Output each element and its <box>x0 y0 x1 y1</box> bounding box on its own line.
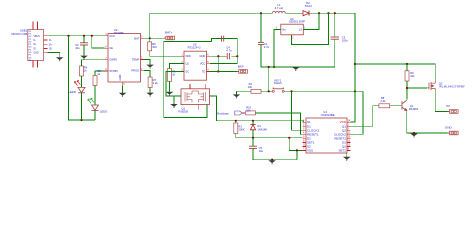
wire R4 to LEDR <box>81 76 83 87</box>
svg-text:1N4148: 1N4148 <box>257 127 267 131</box>
svg-text:SS14: SS14 <box>305 4 312 8</box>
svg-text:100: 100 <box>152 45 157 49</box>
wire top rail left <box>150 12 273 14</box>
U5 pin CS <box>181 61 184 64</box>
svg-text:VSS: VSS <box>307 149 313 153</box>
svg-text:TEMP: TEMP <box>132 58 140 62</box>
svg-text:GND: GND <box>445 126 453 130</box>
junction LEDR cathode rail <box>80 119 82 121</box>
junction D1 top <box>252 120 254 122</box>
svg-text:ID: ID <box>49 47 52 51</box>
U3 pin names <box>282 28 302 32</box>
U2 pin STDBY <box>105 68 109 71</box>
diode D1 1N4148 <box>250 124 255 129</box>
LED LEDR red <box>74 80 85 92</box>
U4 right pin SET2 <box>347 148 351 151</box>
junction 5V spur <box>354 63 356 65</box>
svg-text:IRLML6401TRPBF: IRLML6401TRPBF <box>439 85 465 89</box>
connector USB1 MICRO USB body <box>28 30 44 61</box>
wire R10 to reset <box>255 113 302 134</box>
junction TD row <box>217 70 219 72</box>
wire gate <box>407 87 427 89</box>
wire CHRG to R4 <box>82 60 105 66</box>
junction 5V gndloop <box>327 12 329 14</box>
junction gnd rail arrow <box>413 132 415 134</box>
junction R3 top <box>235 120 237 122</box>
wire R6 top <box>149 38 151 42</box>
transistor Q1 FS8205 body <box>181 89 210 105</box>
transistor Q2 IRLML6401 P-MOSFET <box>427 81 435 90</box>
U4 right pin D2 <box>347 140 351 143</box>
junction vss <box>296 149 298 151</box>
svg-text:4.7 uH: 4.7 uH <box>275 6 283 10</box>
U4 right pin CLOCK2 <box>347 132 351 135</box>
wire Vin drop <box>274 30 281 68</box>
U4 right pin Q2 <box>347 128 351 131</box>
U2 pin GND <box>123 82 126 86</box>
svg-text:4.7u: 4.7u <box>226 48 232 52</box>
resistor R7 1.2k <box>148 77 158 88</box>
U2 pin CE <box>105 45 109 48</box>
wire L1 to D2 <box>285 12 303 14</box>
svg-text:CE8301 50PF: CE8301 50PF <box>289 20 306 24</box>
U4 left pin D1 <box>303 124 306 127</box>
wire LEDG cathode <box>94 110 96 120</box>
wire VBUS rail <box>48 35 105 37</box>
FS8205 pin top1 <box>189 84 191 89</box>
U2 pin VCC <box>105 33 109 36</box>
wire FS8205 right pin <box>210 96 217 121</box>
wire R6 to VDD pin <box>150 51 181 56</box>
junction C5 top <box>252 137 254 139</box>
svg-text:5: 5 <box>123 83 125 86</box>
connector BAT+ <box>164 30 175 39</box>
wire top rail 5V <box>309 12 355 14</box>
svg-text:CE: CE <box>109 46 113 50</box>
resistor R4 1k <box>80 66 88 77</box>
wire key drop to ground rail <box>268 67 270 91</box>
U3 pin GND <box>291 35 294 40</box>
wire cap row <box>236 137 303 139</box>
wire U2 GND <box>122 86 124 93</box>
wire GND row <box>210 55 226 57</box>
svg-text:BAT+: BAT+ <box>165 30 173 34</box>
svg-text:10k: 10k <box>248 85 253 89</box>
LED LEDG green <box>88 98 99 110</box>
U4 right pin Q2 <box>347 144 351 147</box>
junction key left <box>268 90 270 92</box>
resistor R1 1k <box>168 69 177 82</box>
USB1 pin names and numbers <box>29 31 41 62</box>
svg-text:2.2k: 2.2k <box>380 99 386 103</box>
wire USB GND to ground <box>48 53 60 58</box>
ground USB <box>56 57 64 61</box>
IC U4 CD4013BE body <box>306 118 347 153</box>
junction key drop rail <box>268 66 270 68</box>
wire PROG to R7 <box>144 71 150 77</box>
wire key right <box>284 90 363 92</box>
junction Vin gnd rail <box>273 66 275 68</box>
U4 left pin S1 <box>303 119 306 122</box>
USB1 pin ID <box>44 47 48 49</box>
svg-text:1.2k: 1.2k <box>153 81 159 85</box>
wire C1 bottom to ground rail <box>261 45 335 67</box>
resistor R10 10k <box>246 105 256 115</box>
FS8205 pin top2 <box>205 84 207 89</box>
connector 5V out <box>446 104 458 113</box>
svg-text:200K: 200K <box>238 128 244 132</box>
IC U3 CE8301 body <box>281 24 304 35</box>
wire C3 bottom <box>334 39 336 67</box>
capacitor C3 100u <box>331 36 349 43</box>
svg-text:ID: ID <box>34 48 37 50</box>
wire LEDR cathode <box>81 93 83 120</box>
U4 right pin Q1 <box>347 124 351 127</box>
U5 pin TD <box>207 69 211 72</box>
svg-text:LEDG: LEDG <box>100 109 108 113</box>
capacitor C6 bypass <box>222 36 224 42</box>
wire C4 right <box>232 55 238 57</box>
USB1 mount pin top2 <box>37 22 39 30</box>
ground key <box>233 94 241 98</box>
wire C1 top <box>260 13 262 42</box>
wire U3 gnd rail <box>291 13 328 44</box>
U2 pin PROG <box>141 68 145 71</box>
USB1 mount pin bot1 <box>32 61 34 68</box>
wire R3 top <box>235 121 237 123</box>
svg-text:VCC: VCC <box>200 62 206 66</box>
capacitor C2 10u <box>75 43 88 50</box>
USB1 mount pin bot2 <box>37 61 39 68</box>
IC U2 TP4056 body <box>108 34 141 83</box>
connector GND out <box>445 126 458 135</box>
svg-text:STDBY: STDBY <box>109 69 118 73</box>
svg-text:Shutdown: Shutdown <box>217 111 230 115</box>
wire key row left <box>237 90 252 92</box>
wire C3 top <box>334 13 336 37</box>
ground C2 <box>80 56 88 60</box>
U5 pin OC <box>181 69 184 72</box>
resistor R6 100 <box>148 42 157 51</box>
wire R1 to ground <box>169 82 171 92</box>
resistor R3 200K <box>234 123 245 134</box>
wire D1 top <box>252 121 254 125</box>
junction 5V C3 <box>334 12 336 14</box>
wire clock1 drop <box>292 91 303 130</box>
U5 pin VDD <box>181 53 184 56</box>
svg-text:VDD: VDD <box>185 54 191 58</box>
junction VBUS-LED rail <box>67 35 69 37</box>
svg-text:Switch: Switch <box>274 81 282 85</box>
U4 left pin S2 <box>303 144 306 147</box>
capacitor C4 4.7u <box>226 45 232 59</box>
U3 pin LX <box>303 27 307 30</box>
wire sense line <box>217 121 304 122</box>
svg-text:2: 2 <box>292 36 294 39</box>
wire vert GND-TD <box>217 56 219 71</box>
U4 left pin CLOCK1 <box>303 128 306 131</box>
junction gate <box>406 87 408 89</box>
U3 pin Vin number only <box>276 27 278 30</box>
junction BAT R6 <box>149 37 151 39</box>
junction C4 right <box>236 55 238 57</box>
wire CS to R1 <box>170 64 185 69</box>
wire R8 to Q1 output <box>351 106 379 126</box>
wire C5 top <box>252 138 254 146</box>
transistor Q1 2N3904 NPN <box>402 100 407 110</box>
junction VBUS-CE <box>91 35 93 37</box>
net flag Shutdown <box>217 111 243 115</box>
U5 pin VCC <box>207 61 211 64</box>
junction gnd rail bottom <box>271 159 273 161</box>
svg-text:10u: 10u <box>259 149 264 153</box>
ground FS8205 <box>170 104 178 108</box>
U4 right pin VDD <box>347 119 351 122</box>
FS8205 pin bottom <box>198 105 200 110</box>
wire LED left rail <box>69 36 96 120</box>
wire U4 ground stem <box>346 153 348 157</box>
svg-text:GND: GND <box>200 54 206 58</box>
resistor R2 10k <box>249 82 261 93</box>
wire Q2 drain to 5V out <box>435 90 447 111</box>
wire R5 to LEDG <box>94 86 96 105</box>
IC U5 FS312F-G body <box>184 51 207 80</box>
ground U4 <box>343 157 351 161</box>
svg-text:OC: OC <box>185 69 189 73</box>
wire R9 top <box>406 64 408 71</box>
wire protection loop <box>164 42 212 118</box>
wire R3 bottom <box>235 134 237 138</box>
wire TD to BAT- <box>210 70 237 72</box>
USB1 pin D+ <box>44 43 48 45</box>
svg-text:100u: 100u <box>342 39 348 43</box>
wire LX up <box>303 13 319 29</box>
U2 pin CHRG <box>105 57 109 60</box>
wire emitter to gnd rail <box>407 111 448 133</box>
resistor R9 10k <box>405 71 415 81</box>
wire C2 bottom lead <box>83 45 85 56</box>
connector BAT- <box>237 65 248 74</box>
wire vss riser <box>297 150 303 159</box>
USB1 mount pin top1 <box>32 22 34 30</box>
ground TEMP <box>146 65 154 69</box>
svg-text:SET2: SET2 <box>338 149 346 153</box>
wire STDBY to R5 <box>95 71 105 76</box>
USB1 pin D- <box>44 39 48 41</box>
svg-text:LEDR: LEDR <box>68 90 75 94</box>
U2 pin names <box>109 34 139 81</box>
wire TEMP <box>144 60 150 65</box>
wire CE elbow <box>92 36 105 48</box>
svg-text:BAT-: BAT- <box>238 65 244 69</box>
wire C4 loop top <box>212 39 238 64</box>
ground R7 <box>146 93 154 97</box>
diode D2 SS14 <box>303 11 309 16</box>
U4 right pin RESET2 <box>347 136 351 139</box>
ground U2 <box>119 93 127 97</box>
wire 5V drop <box>351 13 356 122</box>
wire vss tie <box>289 138 297 151</box>
wire FS8205 gnd stem <box>173 96 175 104</box>
wire key gnd stem <box>236 91 238 94</box>
svg-text:D-: D- <box>34 40 37 42</box>
svg-text:10k: 10k <box>246 108 251 112</box>
wire R7 to ground <box>149 88 151 93</box>
svg-text:FS8205: FS8205 <box>178 110 188 114</box>
junction key 5V <box>354 90 356 92</box>
junction GND row <box>217 55 219 57</box>
svg-text:FS312F-G: FS312F-G <box>188 45 201 49</box>
capacitor C5 10u <box>249 146 264 153</box>
ground R1 <box>166 92 174 96</box>
resistor R8 2.2k <box>379 96 390 108</box>
svg-text:CHRG: CHRG <box>109 58 117 62</box>
svg-text:VCC: VCC <box>109 34 115 38</box>
svg-text:MICRO USB: MICRO USB <box>11 32 27 36</box>
ground output <box>410 134 418 138</box>
U2 pin BAT <box>141 36 145 39</box>
svg-text:2N3904: 2N3904 <box>409 107 419 111</box>
svg-text:CS: CS <box>185 62 189 66</box>
svg-text:10u: 10u <box>75 46 80 50</box>
svg-text:GND: GND <box>34 53 39 55</box>
svg-text:VBUS: VBUS <box>34 36 41 38</box>
svg-text:LX: LX <box>299 28 302 32</box>
wire boost riser <box>149 13 151 38</box>
wire VCC row <box>210 63 237 65</box>
svg-text:CD4013BE: CD4013BE <box>321 113 335 117</box>
ground rail <box>292 67 300 71</box>
FS8205 mosfet glyphs <box>185 91 206 103</box>
svg-text:TD: TD <box>202 69 206 73</box>
junction rail C1 <box>260 12 262 14</box>
wire R9 to collector <box>406 81 408 100</box>
wire C5 bottom rail <box>253 148 297 159</box>
U4 left pin RESET1 <box>303 132 306 135</box>
svg-text:Vin: Vin <box>282 28 286 32</box>
junction R9 top <box>406 63 408 65</box>
wire BAT to BAT+ <box>144 37 164 39</box>
U2 pin TEMP <box>141 57 145 60</box>
USB1 pin VBUS <box>44 35 48 37</box>
svg-text:10k: 10k <box>410 74 415 78</box>
wire D1 bottom <box>252 130 254 138</box>
Shutdown flag pin <box>242 112 245 114</box>
svg-text:5V: 5V <box>446 104 450 108</box>
svg-text:BAT: BAT <box>134 36 139 40</box>
ground logic <box>268 160 276 164</box>
U4 left pin VSS <box>303 148 306 151</box>
USB1 pin GND <box>44 52 48 54</box>
inductor L1 4.7uH <box>273 11 286 13</box>
U4 left pin SET1 <box>303 140 306 143</box>
wire clock2 drop <box>351 91 363 134</box>
U4 pin names <box>307 120 347 152</box>
svg-text:TP4056: TP4056 <box>114 31 124 35</box>
wire base <box>390 105 402 107</box>
U5 pin names <box>185 54 205 73</box>
U4 left pin D2 <box>303 136 306 139</box>
resistor R5 1k <box>93 69 101 86</box>
svg-text:GND: GND <box>118 74 122 80</box>
wire OC down <box>166 71 184 96</box>
junction key clock <box>290 90 292 92</box>
wire C2 top lead <box>83 36 85 43</box>
wire 5V spur <box>355 64 435 81</box>
switch KEY1 <box>272 87 284 92</box>
wire R2 to key <box>261 90 272 92</box>
junction D2 LX <box>318 12 320 14</box>
junction vss tie <box>288 137 290 139</box>
svg-text:4.7u: 4.7u <box>264 45 270 49</box>
svg-text:PROG: PROG <box>131 69 139 73</box>
capacitor C1 4.7u <box>258 42 270 49</box>
junction VBUS-C2 <box>83 35 85 37</box>
U5 pin GND <box>207 53 211 56</box>
